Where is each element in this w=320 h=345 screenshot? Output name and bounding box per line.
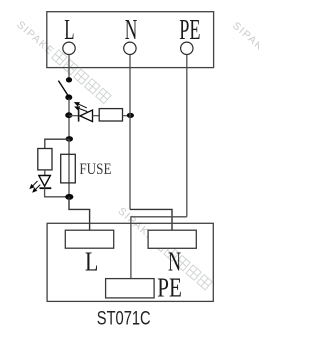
node: LED branch junction (65, 112, 72, 118)
LED D2 cathode bar (40, 187, 52, 189)
terminal circle N (124, 42, 136, 54)
node: junction on N line (127, 113, 134, 118)
svg-text:PE: PE (157, 273, 182, 303)
terminal circle PE (181, 42, 193, 54)
wire N to bottom box (130, 209, 172, 230)
LED D1 cathode bar (78, 110, 80, 122)
watermark SIPAKE centre (116, 205, 213, 291)
svg-text:PE: PE (179, 15, 200, 46)
svg-text:L: L (64, 14, 74, 46)
node: parallel section bottom junction (65, 194, 73, 200)
switch S1 blade (open) (58, 81, 68, 97)
LED D2 triangle (points down) (39, 176, 51, 187)
LED D1 emission arrows (75, 103, 87, 112)
terminal block N (bottom) (148, 230, 196, 248)
wire to left parallel branch (45, 139, 69, 148)
wire to LED D1 (69, 115, 79, 117)
wire PE to bottom box (131, 217, 187, 279)
svg-text:SIPAKE: SIPAKE (230, 20, 259, 59)
wire L to bottom box (69, 197, 90, 230)
wire N vertical (129, 55, 131, 210)
svg-text:SIPAKE: SIPAKE (14, 19, 56, 58)
top terminal box (47, 12, 214, 68)
LED D1 triangle (points left) (80, 110, 93, 122)
resistor R2 (vertical) (38, 149, 52, 170)
bottom appliance box (47, 223, 213, 301)
LED D2 emission arrows (30, 181, 40, 192)
wire through fuse (main line) (68, 139, 70, 197)
terminal block L (bottom) (65, 230, 113, 248)
node: dot above switch (66, 77, 72, 82)
fuse F1 (61, 154, 76, 183)
resistor R1 (99, 109, 122, 121)
svg-text:N: N (168, 247, 181, 276)
wire LED to resistor R1 (93, 115, 100, 117)
wire L vertical from circle to switch (68, 55, 70, 80)
watermark SIPAKE top-right (230, 20, 272, 59)
wire R2 to LED D2 (44, 170, 46, 176)
wire PE vertical (186, 55, 188, 217)
svg-text:L: L (85, 247, 99, 277)
wire R1 to N line (122, 115, 130, 117)
watermark SIPAKE top-left (14, 18, 272, 291)
terminal circle L (63, 42, 75, 54)
terminal block PE (bottom) (106, 279, 155, 298)
wire L vertical switch to branch node (68, 98, 70, 139)
wire LED D2 back to main line (45, 188, 70, 197)
node: parallel section top junction (66, 136, 73, 142)
node: dot below switch (65, 94, 72, 100)
svg-text:ST071C: ST071C (97, 306, 151, 329)
svg-text:FUSE: FUSE (79, 161, 111, 178)
